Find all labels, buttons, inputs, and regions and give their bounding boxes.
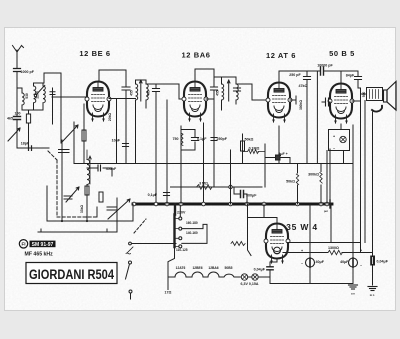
svg-text:110-125: 110-125 (176, 248, 188, 252)
svg-text:455: 455 (147, 90, 151, 96)
svg-text:50kΩ: 50kΩ (245, 138, 254, 142)
svg-text:0,04μF: 0,04μF (377, 260, 389, 264)
svg-text:1000 pF: 1000 pF (21, 70, 35, 74)
svg-text:17Ω: 17Ω (165, 291, 172, 295)
svg-text:33kΩ: 33kΩ (80, 205, 84, 214)
svg-text:2200: 2200 (35, 91, 39, 99)
svg-text:50B5: 50B5 (225, 266, 233, 270)
svg-text:40μF: 40μF (316, 260, 325, 264)
svg-text:18pF: 18pF (21, 142, 30, 146)
svg-text:12BE6: 12BE6 (192, 266, 202, 270)
svg-text:10000 pF: 10000 pF (317, 64, 333, 68)
svg-text:84pF: 84pF (346, 74, 355, 78)
svg-text:−: − (333, 147, 335, 151)
svg-text:47kΩ: 47kΩ (299, 84, 308, 88)
svg-text:5μF +: 5μF + (278, 152, 288, 156)
svg-text:12 BA6: 12 BA6 (181, 51, 210, 60)
svg-text:300kΩ: 300kΩ (299, 100, 303, 110)
svg-text:750: 750 (173, 137, 179, 141)
svg-text:per: per (324, 209, 328, 213)
svg-text:50kΩ: 50kΩ (286, 180, 295, 184)
svg-text:10μF: 10μF (112, 139, 121, 143)
svg-text:40μF: 40μF (340, 260, 349, 264)
svg-text:0,1μF: 0,1μF (148, 193, 158, 197)
svg-text:465: 465 (7, 117, 13, 121)
svg-text:35 W 4: 35 W 4 (286, 222, 318, 232)
svg-text:140-160: 140-160 (186, 231, 198, 235)
svg-text:SM 91-97: SM 91-97 (32, 242, 54, 248)
svg-text:455: 455 (130, 90, 134, 96)
svg-text:160-180: 160-180 (186, 221, 198, 225)
svg-text:3 MΩ: 3 MΩ (199, 182, 208, 186)
svg-text:250pF: 250pF (217, 137, 228, 141)
svg-text:+: + (360, 249, 362, 253)
svg-text:12AT6: 12AT6 (176, 266, 186, 270)
svg-text:m n: m n (370, 294, 375, 297)
svg-text:220V: 220V (177, 211, 186, 215)
svg-text:−: − (301, 262, 303, 266)
svg-text:500: 500 (362, 92, 366, 98)
svg-text:450pF: 450pF (106, 167, 117, 171)
svg-text:250 pF: 250 pF (289, 73, 301, 77)
svg-text:455: 455 (216, 90, 220, 96)
svg-text:100: 100 (15, 112, 21, 116)
svg-text:6,3V 0,15A: 6,3V 0,15A (241, 282, 259, 286)
svg-text:530: 530 (25, 93, 29, 99)
svg-text:FI: FI (21, 242, 25, 247)
svg-text:+: + (301, 249, 303, 253)
svg-text:300μF: 300μF (246, 194, 257, 198)
svg-text:20kΩ: 20kΩ (108, 113, 112, 122)
svg-text:12BA6: 12BA6 (208, 266, 218, 270)
svg-text:300kΩ: 300kΩ (308, 173, 319, 177)
svg-text:a n: a n (351, 293, 355, 296)
svg-text:GIORDANI R504: GIORDANI R504 (29, 267, 114, 283)
svg-text:0,04μF: 0,04μF (254, 268, 266, 272)
svg-text:12 BE 6: 12 BE 6 (79, 49, 110, 58)
svg-text:0,1μF: 0,1μF (197, 137, 207, 141)
svg-text:1300Ω: 1300Ω (328, 246, 339, 250)
svg-text:+: + (333, 135, 335, 139)
svg-text:50 B 5: 50 B 5 (329, 49, 355, 58)
svg-text:MF 465 kHz: MF 465 kHz (25, 251, 54, 257)
svg-text:−: − (360, 264, 362, 268)
svg-text:0,1MΩ: 0,1MΩ (249, 147, 260, 151)
svg-text:12 AT 6: 12 AT 6 (266, 51, 296, 60)
